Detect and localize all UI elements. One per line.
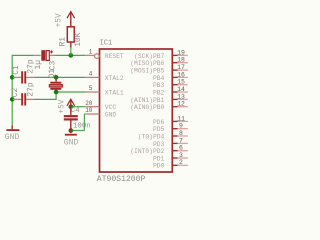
svg-text:Q1: Q1 xyxy=(48,69,57,79)
svg-text:PD6: PD6 xyxy=(153,119,165,126)
svg-text:27p: 27p xyxy=(26,82,35,96)
svg-text:XTAL2: XTAL2 xyxy=(105,75,124,82)
svg-text:100n: 100n xyxy=(73,123,91,131)
svg-text:PD3: PD3 xyxy=(153,141,165,148)
svg-text:20: 20 xyxy=(85,100,93,107)
svg-text:18: 18 xyxy=(177,57,185,64)
svg-text:17: 17 xyxy=(177,64,185,71)
svg-text:2: 2 xyxy=(179,159,183,166)
svg-text:(AIN0)PB0: (AIN0)PB0 xyxy=(130,104,164,111)
svg-text:PB4: PB4 xyxy=(153,75,165,82)
svg-text:14: 14 xyxy=(177,86,185,93)
svg-text:R1: R1 xyxy=(59,37,68,47)
svg-text:(INT0)PD2: (INT0)PD2 xyxy=(130,148,164,155)
svg-text:19: 19 xyxy=(177,49,185,56)
svg-text:XTAL1: XTAL1 xyxy=(105,89,124,96)
svg-text:12: 12 xyxy=(177,101,185,108)
svg-text:PD0: PD0 xyxy=(153,163,165,170)
svg-text:15: 15 xyxy=(177,79,185,86)
svg-text:PD1: PD1 xyxy=(153,155,165,162)
svg-text:5: 5 xyxy=(89,85,93,92)
svg-text:(AIN1)PB1: (AIN1)PB1 xyxy=(130,97,164,104)
svg-text:C1: C1 xyxy=(12,65,21,75)
svg-text:IC1: IC1 xyxy=(100,39,113,47)
svg-text:PB3: PB3 xyxy=(153,82,165,89)
svg-text:PD5: PD5 xyxy=(153,126,165,133)
svg-text:GND: GND xyxy=(5,133,20,142)
svg-text:C2: C2 xyxy=(11,87,20,97)
svg-text:27p: 27p xyxy=(26,59,35,73)
svg-text:3: 3 xyxy=(179,152,183,159)
svg-text:PB2: PB2 xyxy=(153,89,165,96)
svg-text:10K: 10K xyxy=(74,32,83,46)
svg-text:(MOSI)PB5: (MOSI)PB5 xyxy=(130,68,164,75)
svg-text:(SCK)PB7: (SCK)PB7 xyxy=(134,53,164,60)
svg-text:RESET: RESET xyxy=(105,53,124,60)
svg-text:+5V: +5V xyxy=(56,13,64,27)
svg-text:9: 9 xyxy=(179,123,183,130)
svg-text:GND: GND xyxy=(64,139,79,148)
svg-text:16: 16 xyxy=(177,71,185,78)
svg-text:8: 8 xyxy=(179,130,183,137)
svg-text:GND: GND xyxy=(105,111,117,118)
svg-text:C3: C3 xyxy=(48,60,57,70)
svg-text:13: 13 xyxy=(177,93,185,100)
svg-text:11: 11 xyxy=(177,115,185,122)
svg-text:(T0)PD4: (T0)PD4 xyxy=(138,133,165,140)
svg-text:10: 10 xyxy=(85,107,93,114)
svg-text:+5V: +5V xyxy=(59,99,67,113)
svg-text:7: 7 xyxy=(179,137,183,144)
svg-text:1: 1 xyxy=(89,49,93,56)
svg-text:4: 4 xyxy=(89,71,93,78)
svg-text:C4: C4 xyxy=(71,107,80,115)
svg-text:(MISO)PB6: (MISO)PB6 xyxy=(130,60,164,67)
svg-text:AT90S1200P: AT90S1200P xyxy=(97,175,146,183)
svg-text:VCC: VCC xyxy=(105,104,117,111)
svg-text:6: 6 xyxy=(179,145,183,152)
